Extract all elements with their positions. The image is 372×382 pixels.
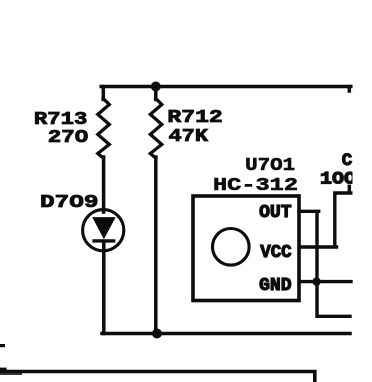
svg-text:47K: 47K	[169, 126, 210, 147]
diode D709 triangle	[92, 217, 116, 239]
wire OUT pin net	[301, 211, 350, 316]
left-edge clipped mark	[0, 344, 5, 347]
diode D709 cathode bar	[92, 239, 115, 242]
svg-text:OUT: OUT	[259, 203, 292, 223]
wire top-right stub down	[348, 87, 352, 92]
IC U701 box (oscillator HC-312)	[193, 196, 299, 301]
wire top horizontal net	[101, 85, 351, 89]
diode D709 circle	[83, 210, 124, 251]
resistor R713	[98, 99, 110, 159]
svg-text:HC-312: HC-312	[213, 175, 298, 196]
wire R712 top stub	[154, 87, 158, 100]
wire VCC pin net to capacitor	[301, 186, 351, 247]
U701 inner circle	[213, 229, 250, 266]
wire bottom horizontal net	[102, 332, 350, 336]
wire D709 bottom lead	[102, 242, 106, 334]
svg-text:27O: 27O	[48, 127, 89, 148]
bottom-left tick	[0, 368, 7, 373]
wire left vertical lead	[102, 87, 106, 100]
bottom box outline	[0, 372, 315, 382]
junction dot bottom (R712 tap)	[152, 329, 162, 339]
wire GND pin net	[301, 280, 351, 283]
svg-text:D7O9: D7O9	[40, 192, 99, 213]
wire R712 bottom lead	[154, 157, 158, 334]
svg-text:VCC: VCC	[260, 243, 292, 263]
svg-text:GND: GND	[259, 276, 292, 296]
svg-text:1OO: 1OO	[320, 169, 356, 189]
bottom-left thick end artifact	[0, 372, 22, 375]
junction dot top (R712 tap)	[151, 82, 161, 92]
wire R713 to D709	[102, 157, 106, 212]
svg-text:U7O1: U7O1	[245, 155, 295, 176]
junction dot GND net	[312, 277, 320, 285]
svg-text:C: C	[342, 151, 353, 171]
resistor R712	[150, 99, 162, 159]
